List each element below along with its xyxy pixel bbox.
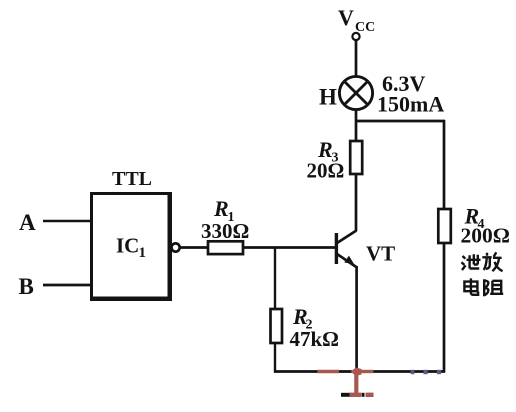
resistor R2 <box>271 304 340 351</box>
Vcc terminal <box>338 5 375 40</box>
wire R2 to bottom rail <box>274 343 276 373</box>
bottom rail black short segment <box>339 370 352 373</box>
transistor VT <box>335 231 395 268</box>
wire right rail down to R4 <box>443 120 446 209</box>
wire R1 to base <box>243 246 335 249</box>
input B <box>19 274 92 299</box>
blue dash marks on bottom rail <box>411 370 441 374</box>
ground junction red blob <box>351 368 362 377</box>
bottom rail black segment left <box>274 370 318 373</box>
svg-text:VT: VT <box>366 242 395 266</box>
svg-text:330Ω: 330Ω <box>201 219 249 243</box>
annotation 泄 (bleed) character <box>462 254 481 270</box>
bottom rail red dash right of junction <box>362 370 374 373</box>
svg-text:V: V <box>338 5 354 30</box>
svg-text:H: H <box>319 85 337 110</box>
lamp value label 6.3V 150mA <box>377 71 444 117</box>
wire lamp to R3 <box>355 110 358 141</box>
input A <box>19 210 91 235</box>
annotation 放 character <box>482 252 502 271</box>
resistor R1 <box>201 196 249 254</box>
IC U1 TTL block <box>92 168 171 300</box>
bottom rail black segment right <box>374 370 446 373</box>
wire branch to R4 rail <box>355 120 445 123</box>
node base junction, wire down to R2 <box>274 248 276 310</box>
svg-text:B: B <box>19 274 34 299</box>
svg-text:IC: IC <box>116 234 139 258</box>
wire emitter down <box>355 266 358 372</box>
wire R3 to collector <box>355 174 358 231</box>
svg-text:A: A <box>19 210 36 235</box>
resistor R3 <box>307 137 363 182</box>
svg-text:47kΩ: 47kΩ <box>290 327 340 351</box>
svg-text:TTL: TTL <box>112 168 152 190</box>
svg-text:1: 1 <box>139 245 147 261</box>
annotation 阻 character <box>484 279 503 296</box>
resistor R4 <box>438 204 510 248</box>
ground (red) <box>341 374 374 395</box>
inverter output bubble <box>172 243 180 251</box>
bottom rail red highlighted segment <box>318 370 340 373</box>
svg-text:200Ω: 200Ω <box>461 224 510 248</box>
lamp H <box>319 76 373 109</box>
svg-text:150mA: 150mA <box>377 92 444 117</box>
wire bubble to R1 <box>180 246 208 249</box>
annotation 电 character <box>464 278 478 294</box>
svg-text:CC: CC <box>355 20 375 35</box>
wire Vcc to lamp <box>355 40 358 77</box>
svg-text:20Ω: 20Ω <box>307 158 345 182</box>
wire R4 to bottom rail <box>443 243 446 373</box>
svg-text:R: R <box>213 196 229 221</box>
